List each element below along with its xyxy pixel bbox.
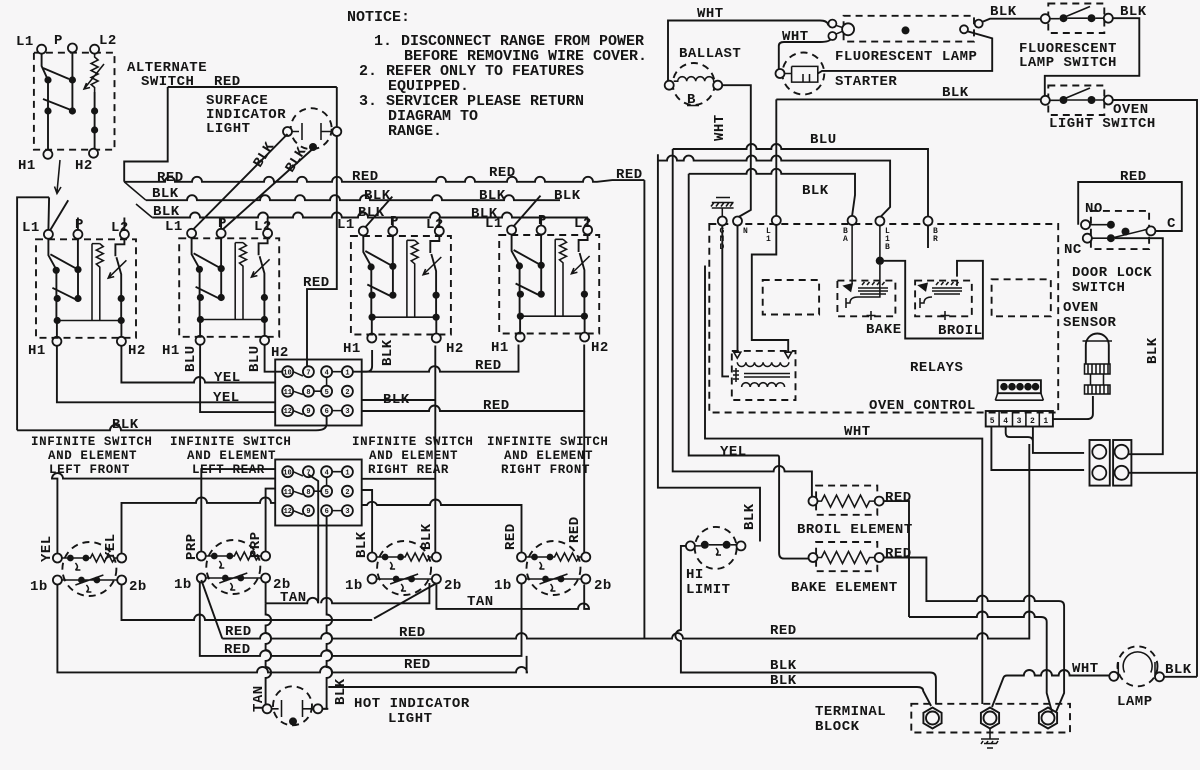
BA run from riser bbox=[689, 169, 855, 216]
svg-text:BALLAST: BALLAST bbox=[679, 46, 741, 62]
svg-text:RED: RED bbox=[885, 546, 912, 562]
wire from sensor connector down to cell 1 bbox=[1053, 396, 1093, 419]
oven sensor symbol bbox=[1083, 334, 1113, 395]
block2 right wire to right-rear element left bbox=[362, 490, 372, 553]
terminal GND bbox=[718, 217, 727, 226]
svg-text:L2: L2 bbox=[574, 216, 592, 232]
infinite switch right front bbox=[499, 226, 599, 342]
svg-text:INFINITE SWITCH: INFINITE SWITCH bbox=[487, 435, 609, 449]
svg-text:RED: RED bbox=[567, 516, 583, 543]
GND internal wire down to transformer area bbox=[722, 226, 729, 377]
svg-text:YEL: YEL bbox=[214, 370, 241, 386]
wires from cells 4 and 2 merging bbox=[1006, 427, 1084, 453]
OVEN LIGHT SWITCH caption bbox=[1049, 102, 1156, 132]
HI LIMIT left wire down to BLK run bbox=[675, 546, 935, 704]
WHT wire from ballast to N bbox=[739, 149, 751, 217]
wire from ballast right down (WHT) bbox=[722, 85, 751, 149]
svg-text:P: P bbox=[75, 217, 84, 233]
bake relay dashed box bbox=[837, 281, 895, 317]
svg-text:RED: RED bbox=[214, 74, 241, 90]
lock connector box 1 bbox=[1090, 440, 1110, 486]
svg-text:P: P bbox=[390, 214, 399, 230]
svg-text:P: P bbox=[218, 216, 227, 232]
numbered connector 5 4 3 2 1 bbox=[986, 411, 1053, 427]
svg-text:RIGHT REAR: RIGHT REAR bbox=[368, 463, 449, 477]
WHT wire top left bbox=[668, 21, 828, 86]
right rear switch blade to bus bbox=[365, 197, 392, 228]
svg-text:L2: L2 bbox=[111, 220, 129, 236]
svg-text:2: 2 bbox=[1030, 417, 1035, 426]
alternate switch terminal L1 bbox=[37, 45, 46, 54]
terminal bolt 1 bbox=[923, 708, 941, 729]
BLU riser down to broil element bbox=[673, 149, 812, 497]
svg-text:BLK: BLK bbox=[358, 205, 385, 221]
wire from block2 down to TAN wire bbox=[308, 475, 318, 604]
svg-text:BLOCK: BLOCK bbox=[815, 719, 860, 735]
block2 left wire to left-rear element left bbox=[201, 469, 275, 551]
wire 2b left-front down right (to right) bbox=[122, 585, 373, 621]
svg-text:BLK: BLK bbox=[153, 204, 180, 220]
TAN riser to hot indicator light bbox=[263, 603, 272, 709]
DOOR LOCK SWITCH caption bbox=[1072, 265, 1152, 296]
svg-text:RED: RED bbox=[352, 169, 379, 185]
svg-text:BLK: BLK bbox=[479, 188, 506, 204]
svg-text:BLK: BLK bbox=[802, 183, 829, 199]
svg-text:B: B bbox=[885, 243, 890, 252]
svg-text:BLK: BLK bbox=[419, 523, 435, 550]
svg-text:RED: RED bbox=[1120, 169, 1147, 185]
svg-text:BLU: BLU bbox=[183, 345, 199, 372]
bake element bbox=[809, 542, 884, 571]
connector block 2 bbox=[275, 460, 362, 526]
svg-text:RED: RED bbox=[483, 398, 510, 414]
alternate switch internals bbox=[42, 53, 104, 150]
HI LIMIT caption bbox=[686, 567, 731, 598]
empty relay dashed box left bbox=[763, 280, 819, 315]
svg-text:RED: RED bbox=[157, 170, 184, 186]
wire from starter up to lamp pin bbox=[779, 39, 831, 70]
svg-text:TERMINAL: TERMINAL bbox=[815, 704, 886, 720]
bus lead-in diagonals at left bbox=[124, 182, 152, 218]
svg-text:WHT: WHT bbox=[712, 114, 728, 141]
svg-text:SENSOR: SENSOR bbox=[1063, 315, 1117, 331]
svg-text:H1: H1 bbox=[18, 158, 36, 174]
terminal N bbox=[733, 217, 742, 226]
terminal block dashed box bbox=[911, 704, 1070, 733]
svg-text:1: 1 bbox=[1043, 417, 1048, 426]
svg-text:NO: NO bbox=[1085, 201, 1103, 217]
svg-text:1b: 1b bbox=[494, 578, 512, 594]
HI LIMIT bbox=[686, 527, 746, 569]
svg-text:BROIL ELEMENT: BROIL ELEMENT bbox=[797, 522, 913, 538]
broil element bbox=[809, 486, 884, 515]
svg-text:BLK: BLK bbox=[770, 658, 797, 674]
svg-text:RED: RED bbox=[616, 167, 643, 183]
svg-text:LIGHT: LIGHT bbox=[206, 121, 251, 137]
P and L2 risers to BLK bus for each switch bbox=[78, 218, 588, 230]
svg-text:SWITCH: SWITCH bbox=[1072, 280, 1125, 296]
solid channel from L1B dot to broil relay bbox=[884, 261, 983, 339]
svg-text:H1: H1 bbox=[343, 341, 361, 357]
element right front bbox=[517, 541, 590, 595]
transformer bbox=[732, 351, 796, 400]
svg-text:FLUORESCENT LAMP: FLUORESCENT LAMP bbox=[835, 49, 977, 65]
wire H1 left-front down and right (YEL) bbox=[57, 346, 275, 403]
BLK wire to oven light switch bbox=[776, 98, 1040, 100]
svg-text:RED: RED bbox=[404, 657, 431, 673]
block1 row3 RED wire to H2 right-front bbox=[362, 345, 585, 412]
caption left front bbox=[31, 435, 153, 477]
svg-text:C: C bbox=[1167, 216, 1176, 232]
OVEN SENSOR caption bbox=[1063, 300, 1117, 331]
svg-text:WHT: WHT bbox=[697, 6, 724, 22]
svg-text:RED: RED bbox=[489, 165, 516, 181]
surface indicator light symbol bbox=[283, 108, 341, 151]
WHT riser bbox=[705, 266, 982, 705]
element left rear bbox=[197, 540, 270, 594]
svg-text:TAN: TAN bbox=[280, 590, 307, 606]
svg-text:N: N bbox=[743, 227, 748, 236]
svg-text:H1: H1 bbox=[491, 340, 509, 356]
wire H2 left-front down and right (YEL) bbox=[121, 345, 275, 383]
svg-text:BLU: BLU bbox=[247, 345, 263, 372]
svg-text:WHT: WHT bbox=[844, 424, 871, 440]
terminal BR bbox=[924, 217, 933, 226]
svg-text:BLK: BLK bbox=[112, 417, 139, 433]
alternate switch terminal L2 bbox=[90, 45, 99, 54]
block2 right wire joining right-rear riser bbox=[362, 478, 435, 480]
TAN wire from 2b left-rear to right-rear bbox=[266, 583, 430, 604]
svg-text:RIGHT FRONT: RIGHT FRONT bbox=[501, 463, 590, 477]
svg-text:AND ELEMENT: AND ELEMENT bbox=[48, 449, 137, 463]
fluorescent lamp dashed box bbox=[844, 16, 974, 42]
svg-text:L2: L2 bbox=[426, 217, 444, 233]
control board connector with black pins bbox=[995, 380, 1043, 400]
BA/YEL riser down bbox=[689, 174, 809, 559]
lamp centre dot bbox=[902, 26, 910, 34]
hot indicator light caption bbox=[354, 696, 470, 727]
L1B riser: run to HI LIMIT bbox=[658, 154, 760, 541]
svg-text:INFINITE SWITCH: INFINITE SWITCH bbox=[31, 435, 153, 449]
oven control dashed box bbox=[709, 224, 1058, 413]
RED riser from top bus down bbox=[643, 180, 645, 638]
BLK bus 1 bbox=[146, 195, 560, 200]
svg-text:2b: 2b bbox=[129, 579, 147, 595]
svg-text:NC: NC bbox=[1064, 242, 1082, 258]
L1 internal wire down-left-down bbox=[752, 225, 788, 352]
terminal L1B bbox=[875, 217, 884, 226]
svg-text:H2: H2 bbox=[128, 343, 146, 359]
wire from lamp switch right, down and to oven light switch bbox=[1045, 18, 1140, 96]
hot indicator light symbol bbox=[263, 686, 323, 725]
long RED wire from 1b left-front bbox=[57, 585, 527, 673]
terminal BA bbox=[848, 216, 857, 225]
svg-text:P: P bbox=[538, 213, 547, 229]
alternate switch labels bbox=[16, 33, 207, 174]
junction dot on L1B bbox=[876, 257, 884, 265]
vertical from light right terminal down to connector block 1 (RED) bbox=[307, 136, 337, 366]
svg-text:5: 5 bbox=[990, 417, 995, 426]
svg-text:DOOR LOCK: DOOR LOCK bbox=[1072, 265, 1152, 281]
svg-text:RELAYS: RELAYS bbox=[910, 360, 963, 376]
RED long wire y=638.6 bbox=[222, 444, 1029, 639]
svg-text:L1: L1 bbox=[337, 217, 355, 233]
RED wire y=655.9 from 1b left-rear bbox=[200, 583, 522, 656]
svg-text:P: P bbox=[54, 33, 63, 49]
svg-text:BROIL: BROIL bbox=[938, 323, 983, 339]
H2 right-front riser continues down to element bbox=[583, 411, 585, 553]
svg-text:HOT INDICATOR: HOT INDICATOR bbox=[354, 696, 470, 712]
BLK bus 2 bbox=[152, 213, 588, 218]
svg-text:RED: RED bbox=[399, 625, 426, 641]
left outer box wire to L1 of left-front switch bbox=[17, 197, 49, 430]
svg-text:BLK: BLK bbox=[152, 186, 179, 202]
TAN wire from 2b right-rear to 2b right-front bbox=[436, 585, 589, 609]
wire H2 left-rear down into block 1 bbox=[265, 345, 282, 372]
svg-text:L1: L1 bbox=[16, 34, 34, 50]
svg-text:WHT: WHT bbox=[1072, 661, 1099, 677]
ballast symbol bbox=[665, 63, 723, 108]
svg-text:1b: 1b bbox=[30, 579, 48, 595]
svg-text:RANGE.: RANGE. bbox=[388, 123, 442, 140]
fluorescent lamp switch bbox=[1041, 4, 1113, 34]
svg-text:AND ELEMENT: AND ELEMENT bbox=[187, 449, 276, 463]
svg-text:LIGHT SWITCH: LIGHT SWITCH bbox=[1049, 116, 1156, 132]
svg-text:BLK: BLK bbox=[380, 339, 396, 366]
wire from oven light switch right to right edge bbox=[1113, 100, 1197, 677]
wire H2 right-rear down to element (BLK) bbox=[434, 346, 436, 553]
svg-text:STARTER: STARTER bbox=[835, 74, 897, 90]
svg-text:YEL: YEL bbox=[720, 444, 747, 460]
svg-text:NOTICE:: NOTICE: bbox=[347, 9, 410, 26]
surface indicator light wire box bbox=[124, 87, 337, 182]
block1 row1 RED wire to H1 right-front bbox=[362, 345, 519, 372]
svg-text:H1: H1 bbox=[162, 343, 180, 359]
svg-text:OVEN CONTROL: OVEN CONTROL bbox=[869, 398, 976, 414]
BLU run from riser to BR terminal bbox=[673, 144, 928, 217]
svg-text:LAMP: LAMP bbox=[1117, 694, 1153, 710]
svg-text:L2: L2 bbox=[254, 219, 272, 235]
RED wire to door lock bbox=[1078, 182, 1182, 231]
block2 left wire to left-front element left bbox=[52, 473, 275, 553]
block2 left wire to left-rear element right bbox=[266, 489, 276, 552]
svg-text:BLK: BLK bbox=[742, 503, 758, 530]
alternate switch terminal P bbox=[68, 44, 77, 53]
L1B top run to terminal bbox=[658, 156, 890, 217]
wire from connector cell 5 down to lock connector bbox=[991, 427, 1084, 471]
infinite switch right rear bbox=[351, 227, 451, 343]
right rear switch terminal labels bbox=[337, 214, 464, 357]
svg-text:L1: L1 bbox=[22, 220, 40, 236]
N internal wire down bbox=[737, 226, 739, 354]
BLK riser from oven light switch wire to L1 bbox=[775, 99, 777, 215]
svg-text:LAMP SWITCH: LAMP SWITCH bbox=[1019, 55, 1117, 71]
BLK wire 2 from hot light to terminal block bbox=[322, 687, 931, 709]
svg-text:1b: 1b bbox=[345, 578, 363, 594]
FLUORESCENT LAMP SWITCH caption bbox=[1019, 41, 1117, 71]
svg-text:RED: RED bbox=[770, 623, 797, 639]
infinite switch left rear bbox=[179, 229, 279, 345]
terminal bolt 2 bbox=[981, 708, 999, 729]
svg-text:OVEN: OVEN bbox=[1063, 300, 1099, 316]
svg-text:BLK: BLK bbox=[554, 188, 581, 204]
svg-text:L1: L1 bbox=[485, 216, 503, 232]
arrow from alternate switch to main switch box bbox=[55, 160, 62, 194]
svg-text:BLK: BLK bbox=[770, 673, 797, 689]
solid box around fluorescent lamp text bbox=[818, 31, 992, 73]
svg-text:INFINITE SWITCH: INFINITE SWITCH bbox=[352, 435, 474, 449]
wire lamp right to right edge bbox=[1164, 676, 1197, 678]
RED bus bbox=[124, 177, 644, 182]
svg-text:INFINITE SWITCH: INFINITE SWITCH bbox=[170, 435, 292, 449]
svg-text:YEL: YEL bbox=[213, 390, 240, 406]
lamp right pins bbox=[960, 25, 968, 33]
connector block 1 bbox=[275, 360, 362, 426]
svg-text:AND ELEMENT: AND ELEMENT bbox=[504, 449, 593, 463]
diagonal BLK wire from light to L1 of left-rear switch bbox=[192, 134, 288, 231]
alternate switch dashed box bbox=[34, 53, 115, 150]
svg-text:A: A bbox=[843, 235, 848, 244]
broil element right wire down bbox=[884, 501, 1052, 712]
left front switch blade to bus bbox=[50, 200, 68, 230]
wire H1 right-rear down into block 1 bbox=[353, 350, 372, 372]
empty relay dashed box right bbox=[992, 279, 1051, 316]
svg-text:1: 1 bbox=[766, 235, 771, 244]
terminal bolt 3 bbox=[1039, 708, 1057, 729]
block2 left wire to left-front element right bbox=[122, 497, 276, 553]
diagonal from 2b right-rear to wire below bbox=[374, 584, 436, 619]
svg-text:BLK: BLK bbox=[1145, 337, 1161, 364]
lamp left electrode circle bbox=[842, 23, 854, 35]
diagonal BLK wire from light to P of left-rear switch bbox=[222, 150, 312, 231]
long BLK wire bottom of switch section bbox=[17, 417, 327, 431]
broil relay coil bbox=[919, 281, 962, 320]
lamp left pins bbox=[828, 20, 836, 28]
alternate switch terminal H2 bbox=[89, 149, 98, 158]
svg-text:LIGHT: LIGHT bbox=[388, 711, 433, 727]
svg-text:YEL: YEL bbox=[103, 533, 119, 560]
svg-text:RED: RED bbox=[303, 275, 330, 291]
bake element right wire down bbox=[884, 558, 1064, 713]
BLK riser from block2 to hot indicator light bbox=[322, 517, 332, 709]
svg-text:BAKE: BAKE bbox=[866, 322, 902, 338]
caption left rear bbox=[170, 435, 292, 477]
svg-text:RED: RED bbox=[224, 642, 251, 658]
svg-text:BAKE ELEMENT: BAKE ELEMENT bbox=[791, 580, 898, 596]
svg-text:4: 4 bbox=[1003, 417, 1008, 426]
svg-text:BLK: BLK bbox=[990, 4, 1017, 20]
svg-text:BLK: BLK bbox=[942, 85, 969, 101]
ground symbol under terminal block bbox=[981, 728, 999, 748]
notice text block bbox=[347, 9, 647, 140]
broil relay dashed box bbox=[915, 281, 972, 317]
svg-text:2b: 2b bbox=[444, 578, 462, 594]
svg-text:L2: L2 bbox=[99, 33, 117, 49]
right front switch terminal labels bbox=[485, 213, 609, 356]
svg-text:LIMIT: LIMIT bbox=[686, 582, 731, 598]
wire lock connector 2 lower to right edge bbox=[1129, 472, 1197, 474]
left rear switch terminal labels bbox=[162, 216, 272, 359]
block2 right wire to right-front element left bbox=[362, 500, 522, 553]
svg-text:AND ELEMENT: AND ELEMENT bbox=[369, 449, 458, 463]
door lock switch bbox=[1081, 211, 1155, 249]
svg-text:BLK: BLK bbox=[1165, 662, 1192, 678]
svg-text:TAN: TAN bbox=[467, 594, 494, 610]
left front switch terminal labels bbox=[22, 217, 146, 359]
caption right rear bbox=[352, 435, 474, 477]
TERMINAL BLOCK caption bbox=[815, 704, 886, 735]
right front switch blade to bus bbox=[514, 196, 541, 227]
svg-text:HI: HI bbox=[686, 567, 704, 583]
surface indicator light caption bbox=[206, 93, 286, 137]
ground symbol above GND terminal bbox=[711, 198, 734, 217]
bake relay coil bbox=[844, 225, 888, 320]
WHT wire from terminal block to lamp bbox=[992, 670, 1109, 707]
svg-text:1b: 1b bbox=[174, 577, 192, 593]
svg-text:L1: L1 bbox=[165, 219, 183, 235]
RED diagonal from 1b left-rear bbox=[201, 580, 222, 639]
svg-text:3: 3 bbox=[1017, 417, 1022, 426]
svg-text:R: R bbox=[933, 235, 938, 244]
BLK wire from door lock down to lock connector bbox=[1115, 238, 1163, 454]
svg-text:H1: H1 bbox=[28, 343, 46, 359]
svg-text:H2: H2 bbox=[446, 341, 464, 357]
terminal L1 bbox=[772, 216, 781, 225]
svg-text:RED: RED bbox=[225, 624, 252, 640]
caption right front bbox=[487, 435, 609, 477]
infinite switch left front bbox=[36, 230, 136, 346]
svg-text:RED: RED bbox=[503, 523, 519, 550]
block1 right wire BLK to right-rear H2 riser bbox=[362, 399, 435, 401]
wire H1 left-rear down and right bbox=[200, 345, 275, 412]
oven light switch bbox=[1041, 86, 1113, 116]
element left front bbox=[53, 542, 126, 596]
svg-text:BLK: BLK bbox=[354, 531, 370, 558]
element right rear bbox=[368, 541, 441, 595]
alternate switch terminal H1 bbox=[43, 150, 52, 159]
svg-text:RED: RED bbox=[475, 358, 502, 374]
svg-text:BLU: BLU bbox=[810, 132, 837, 148]
svg-text:H2: H2 bbox=[75, 158, 93, 174]
lock connector box 2 bbox=[1113, 440, 1131, 486]
svg-text:H2: H2 bbox=[591, 340, 609, 356]
lamp symbol bbox=[1109, 646, 1164, 686]
svg-text:BLK: BLK bbox=[333, 678, 349, 705]
wire lamp to fluorescent lamp switch bbox=[982, 19, 1041, 22]
svg-text:2b: 2b bbox=[594, 578, 612, 594]
svg-text:RED: RED bbox=[885, 490, 912, 506]
starter symbol bbox=[776, 53, 825, 95]
